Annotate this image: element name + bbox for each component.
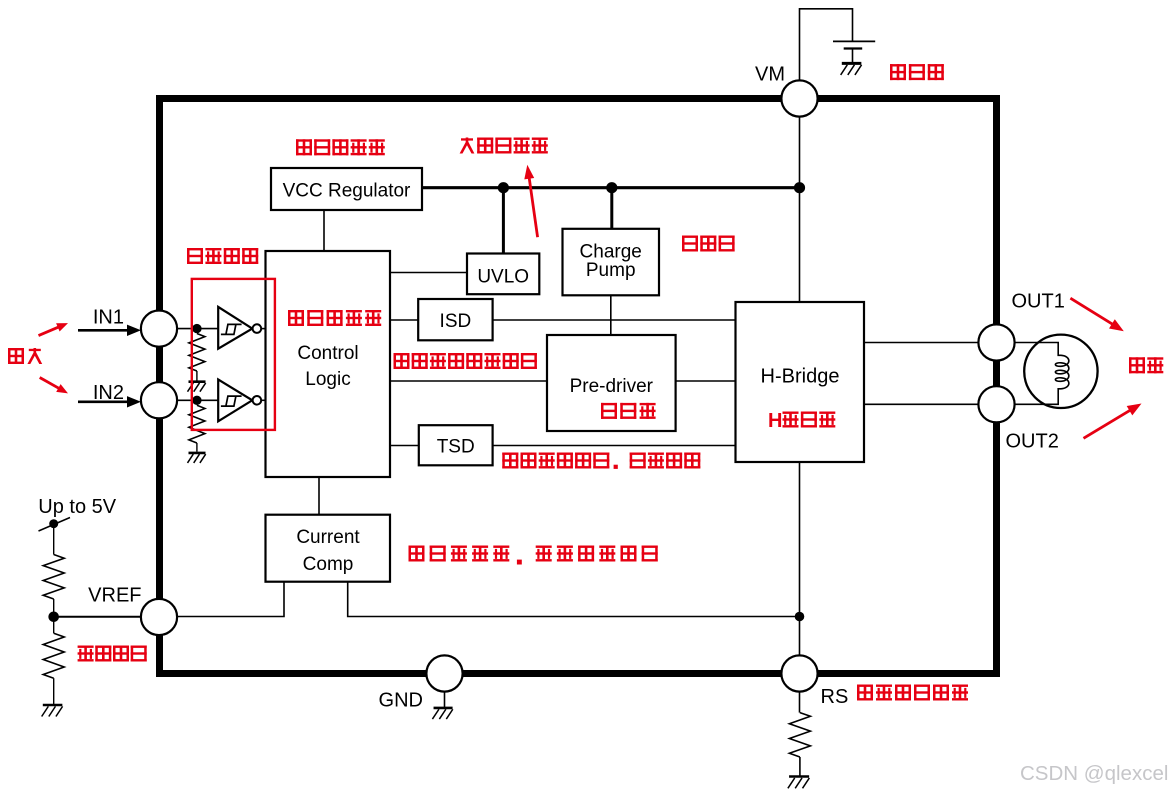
ground (battery) <box>841 63 862 75</box>
junction (rail-UVLO) <box>498 182 509 193</box>
annotation 输出 (output) <box>1129 357 1163 373</box>
block Charge Pump <box>563 229 660 295</box>
annotation 斩波电路 (chopper circuit) <box>187 248 258 264</box>
junction (rail-Charge Pump) <box>606 182 617 193</box>
ground (VREF divider) <box>42 705 63 717</box>
junction (IN1 node) <box>192 324 201 333</box>
resistor R4 (VREF lower) <box>43 633 64 678</box>
ground (R1) <box>188 382 206 392</box>
annotation 输入 (input) <box>8 348 42 364</box>
wire ISD to H-Bridge <box>493 319 736 321</box>
annotation 短路延时时的电流 <box>394 353 537 369</box>
svg-text:VM: VM <box>755 64 785 86</box>
junction (VREF divider node) <box>48 612 59 623</box>
svg-text:VCC Regulator: VCC Regulator <box>283 181 411 202</box>
block VCC Regulator <box>271 168 422 210</box>
svg-text:GND: GND <box>379 690 423 712</box>
junction (RS sense node) <box>795 612 805 622</box>
block Control Logic <box>266 251 391 477</box>
pin GND <box>379 655 463 711</box>
svg-text:OUT2: OUT2 <box>1006 431 1059 453</box>
wire Charge Pump to Pre-driver <box>610 295 612 335</box>
svg-text:IN1: IN1 <box>93 307 124 329</box>
wire Pre-driver to H-Bridge <box>676 380 736 382</box>
annotation 电压源 (voltage source) <box>890 64 944 80</box>
svg-text:UVLO: UVLO <box>477 267 529 288</box>
pin IN2 <box>93 382 177 418</box>
arrow into IN2 <box>78 396 141 407</box>
annotation 短路延时时间，保护电路 <box>502 453 700 469</box>
wire H-Bridge to OUT1 <box>864 342 979 344</box>
resistor R1 (IN1 pulldown) <box>189 334 205 381</box>
svg-text:Up to 5V: Up to 5V <box>38 496 116 518</box>
wire R4 to ground <box>53 678 55 704</box>
wire Control Logic to TSD <box>390 445 419 447</box>
chopper circuit red box <box>192 279 275 430</box>
wire TSD to H-Bridge <box>493 445 736 447</box>
wire H-Bridge to OUT2 <box>864 403 979 405</box>
svg-text:VREF: VREF <box>88 585 141 607</box>
wire U1 to Control Logic <box>261 328 266 330</box>
wire GND pin to ground <box>444 692 446 707</box>
battery B1 (voltage source) plates <box>833 41 875 63</box>
arrow (overvoltage) <box>524 165 537 237</box>
annotation 逻辑控制器 (logic controller) <box>288 310 381 326</box>
watermark CSDN @qlexcel <box>1020 762 1168 785</box>
wire R3 to VREF node <box>53 599 55 633</box>
block UVLO <box>467 254 539 295</box>
svg-text:ISD: ISD <box>440 311 472 332</box>
terminal (5V tap) <box>39 518 71 532</box>
svg-text:H-Bridge: H-Bridge <box>761 366 840 388</box>
svg-text:RS: RS <box>821 686 849 708</box>
svg-text:Comp: Comp <box>303 554 354 575</box>
wire R5 to ground <box>799 757 801 776</box>
pin OUT1 <box>978 291 1064 361</box>
svg-text:Pump: Pump <box>586 260 636 281</box>
arrow to IN2 label <box>40 378 68 394</box>
annotation 参考电压 (reference voltage) <box>78 646 147 662</box>
arrow to IN1 label <box>39 323 69 336</box>
wire Control Logic to Pre-driver <box>390 380 547 382</box>
block H-Bridge <box>736 302 865 462</box>
svg-text:Pre-driver: Pre-driver <box>570 376 654 397</box>
annotation 大电压关断 (overvoltage shutdown) <box>460 138 548 154</box>
block Pre-driver <box>547 335 676 431</box>
wire Current Comp to RS node <box>348 582 800 617</box>
resistor R2 (IN2 pulldown) <box>189 405 205 451</box>
ground (R2) <box>188 453 206 463</box>
svg-text:OUT1: OUT1 <box>1012 291 1065 313</box>
svg-text:TSD: TSD <box>437 437 475 458</box>
wire UVLO stub <box>502 189 505 254</box>
svg-text:Logic: Logic <box>305 369 350 390</box>
wire Control Logic to ISD <box>390 319 418 321</box>
ground (RS) <box>788 777 809 789</box>
wire VM vertical to H-Bridge <box>799 116 801 302</box>
wire VCC rail <box>422 186 800 189</box>
wire RS pin to R5 <box>799 692 801 713</box>
pin VM <box>755 64 818 117</box>
junction (IN2 node) <box>192 396 201 405</box>
block Current Comp <box>266 515 391 582</box>
resistor R3 (VREF upper) <box>43 555 64 600</box>
wire Control Logic to Current Comp <box>318 477 320 515</box>
arrow to OUT2 label <box>1084 404 1142 439</box>
block TSD <box>419 425 493 465</box>
ground (GND pin) <box>432 708 452 719</box>
wire Current Comp to VREF <box>177 582 284 617</box>
wire IN2 to inverter U2 <box>177 399 218 401</box>
wire Charge Pump stub <box>610 189 613 229</box>
annotation 充电池 (charge pump note) <box>682 236 735 252</box>
wire VM pin to battery <box>800 9 853 81</box>
annotation 前驱动 (pre-drive) <box>601 403 656 419</box>
annotation 输出电流检测 (output current sense) <box>857 685 968 701</box>
wire VCC Regulator to Control Logic <box>323 210 325 251</box>
motor M1 (load) <box>1015 335 1098 408</box>
svg-text:Current: Current <box>296 527 360 548</box>
annotation 电压检测器 (voltage detector) <box>296 139 385 155</box>
resistor R5 (current sense) <box>789 713 810 757</box>
svg-text:CSDN @qlexcel: CSDN @qlexcel <box>1020 762 1168 785</box>
arrow from OUT1 <box>1070 298 1123 331</box>
arrow into IN1 <box>78 325 141 336</box>
wire 5V to R3 <box>53 524 55 555</box>
inverter U2 (schmitt) <box>218 380 261 422</box>
wire IN1 to inverter U1 <box>177 328 218 330</box>
annotation H桥驱动 (H-bridge drive) <box>768 410 835 432</box>
wire VREF node to VREF pin <box>54 616 141 618</box>
annotation 电流比较器，用于检测电流 <box>409 546 658 565</box>
wire Control Logic to UVLO <box>390 272 467 274</box>
svg-text:Control: Control <box>297 343 358 364</box>
IC package outline <box>160 99 997 674</box>
pin IN1 <box>93 307 177 347</box>
pin RS <box>781 655 848 708</box>
junction (rail-VM) <box>794 182 805 193</box>
wire U2 to Control Logic <box>261 399 266 401</box>
inverter U1 (schmitt) <box>218 307 261 349</box>
block ISD <box>418 299 492 340</box>
wire H-Bridge to RS <box>799 462 801 656</box>
annotation Up to 5V <box>38 496 116 518</box>
svg-text:H: H <box>768 410 782 432</box>
pin VREF <box>88 585 177 636</box>
pin OUT2 <box>978 386 1058 452</box>
